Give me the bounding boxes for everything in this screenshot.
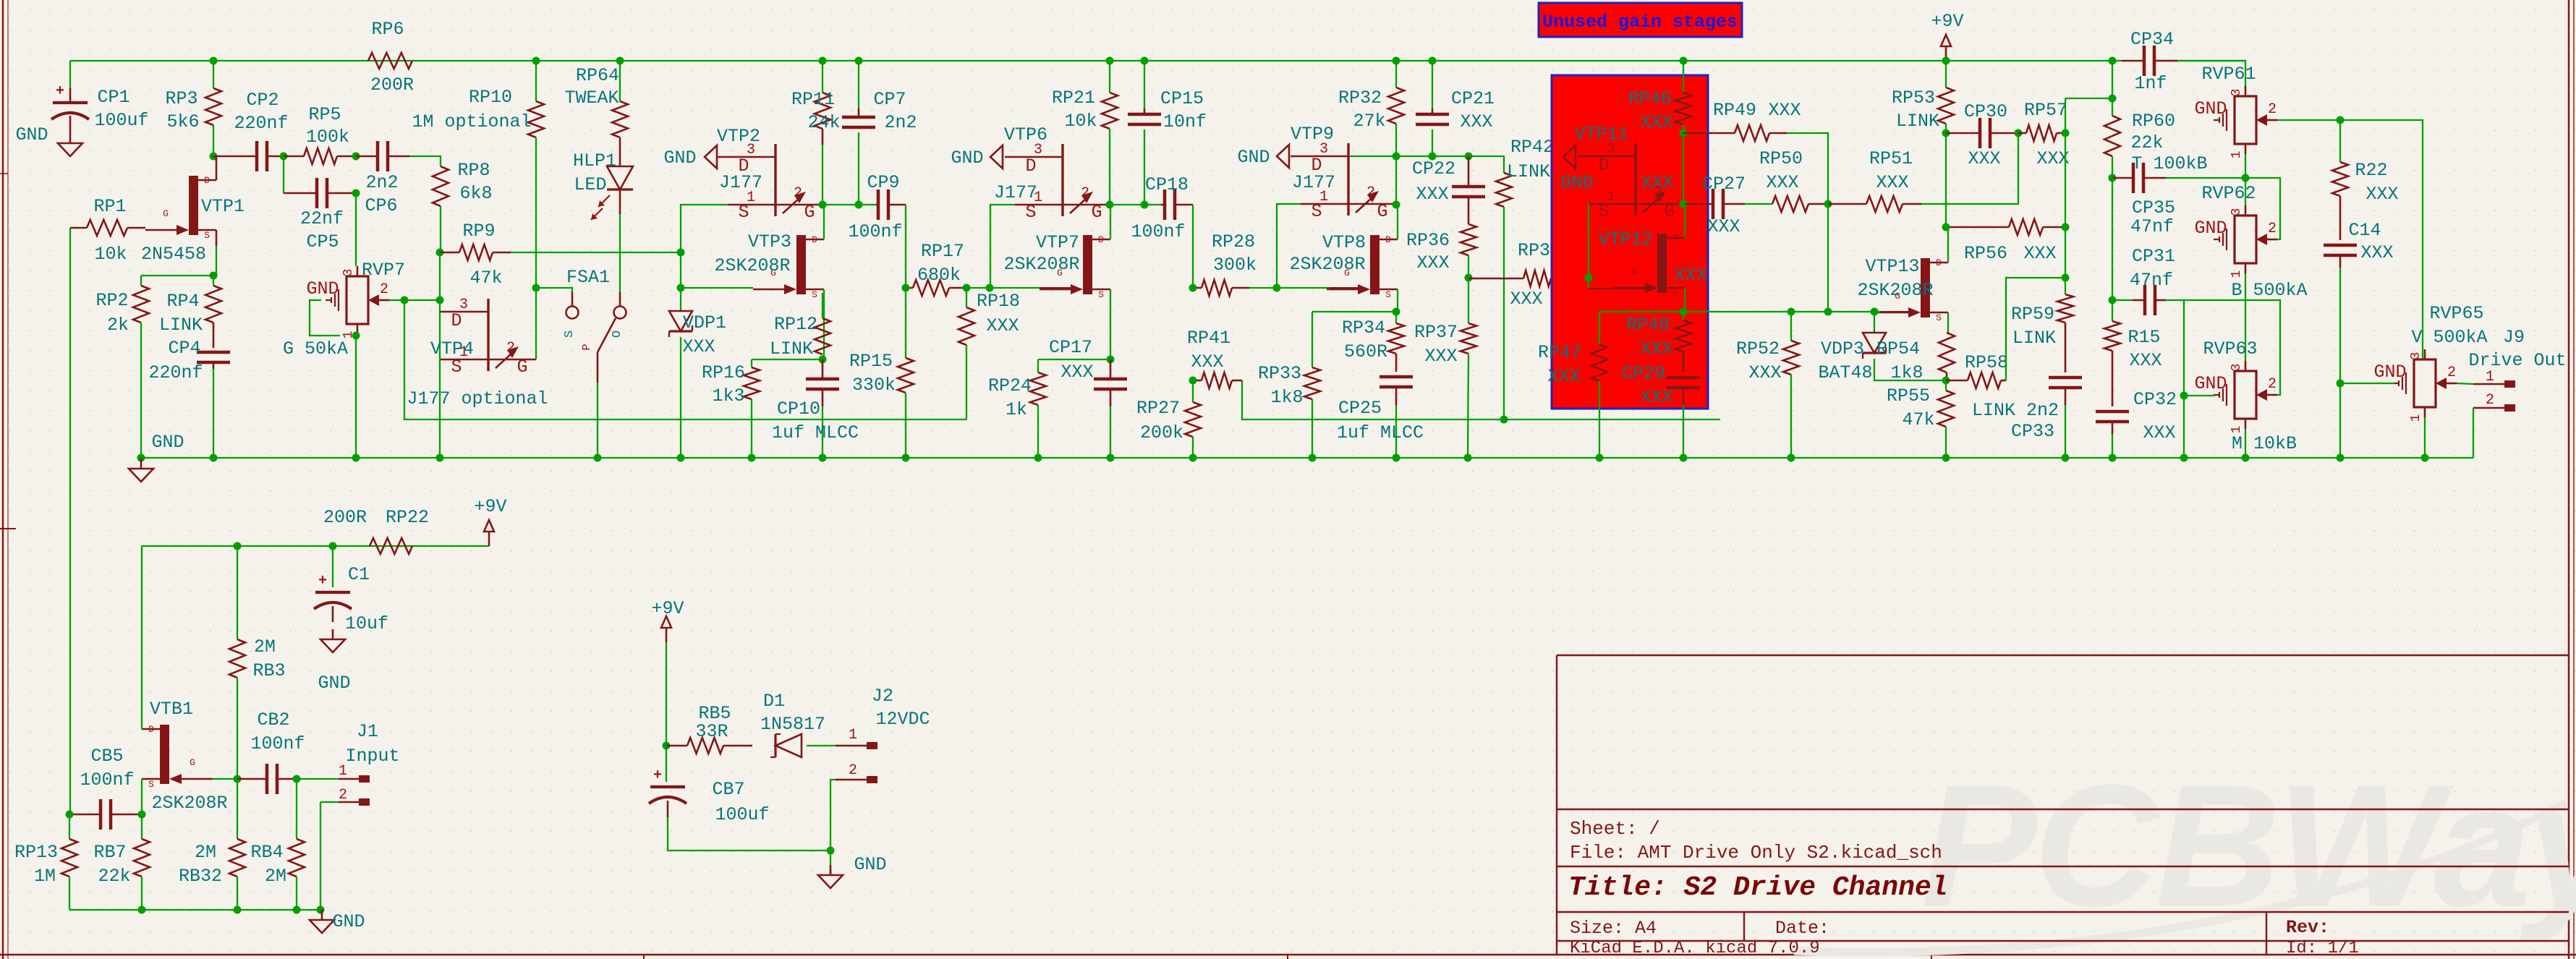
resistor RB32 xyxy=(237,779,238,839)
gnd label VTP6 xyxy=(990,145,1003,169)
svg-text:RP41: RP41 xyxy=(1187,328,1230,349)
junction CB2 right xyxy=(293,775,301,783)
svg-text:24k: 24k xyxy=(807,112,840,133)
svg-text:S: S xyxy=(148,779,154,790)
svg-text:10uf: 10uf xyxy=(345,613,388,634)
svg-text:GND: GND xyxy=(15,124,48,145)
junction RVP7 pin1 xyxy=(352,332,360,340)
svg-text:VTP6: VTP6 xyxy=(1004,124,1047,145)
svg-text:GND: GND xyxy=(332,911,365,932)
wire VTP13 supply column xyxy=(1945,133,1947,227)
junction rail RP21 xyxy=(1106,57,1114,65)
svg-text:1M: 1M xyxy=(34,866,56,887)
svg-text:RP57: RP57 xyxy=(2024,100,2067,121)
svg-text:RVP62: RVP62 xyxy=(2201,183,2256,204)
capacitor CP22 xyxy=(1452,185,1485,189)
junction bus CP17 xyxy=(1107,454,1115,462)
svg-text:RP28: RP28 xyxy=(1212,231,1255,252)
svg-text:RVP61: RVP61 xyxy=(2201,64,2256,85)
junction bus RP27 xyxy=(1189,454,1197,462)
svg-text:1: 1 xyxy=(2486,369,2494,385)
junction bus CP33 xyxy=(2062,454,2070,462)
wire CP35 row right xyxy=(2166,178,2280,239)
svg-text:C14: C14 xyxy=(2348,220,2381,241)
svg-text:CP17: CP17 xyxy=(1049,337,1092,358)
svg-text:XXX: XXX xyxy=(1640,387,1672,408)
svg-text:XXX: XXX xyxy=(2036,148,2069,169)
svg-text:200k: 200k xyxy=(1140,422,1183,443)
junction rail RP10 xyxy=(532,57,540,65)
svg-text:J2: J2 xyxy=(872,686,893,707)
svg-text:2: 2 xyxy=(1081,185,1089,202)
resistor RP2 xyxy=(140,276,142,286)
junction RP52 top xyxy=(1788,308,1795,316)
svg-text:LINK 2n2: LINK 2n2 xyxy=(1972,400,2059,421)
svg-text:RP52: RP52 xyxy=(1736,338,1780,359)
wire VTP2 gate row xyxy=(823,204,876,205)
transistor VTP12 xyxy=(1657,234,1667,293)
junction RP34 top xyxy=(1393,308,1400,316)
junction RP56 right xyxy=(2062,223,2070,231)
svg-text:220nf: 220nf xyxy=(234,113,288,134)
svg-text:RB4: RB4 xyxy=(250,842,283,863)
svg-text:100nf: 100nf xyxy=(250,733,305,754)
svg-text:XXX: XXX xyxy=(1191,351,1223,372)
wire RP32 to gate junction xyxy=(1395,156,1397,205)
svg-text:1k8: 1k8 xyxy=(1270,387,1303,408)
junction J2 gnd xyxy=(827,847,835,855)
svg-text:BAT48: BAT48 xyxy=(1818,362,1872,383)
junction CP22 top xyxy=(1465,153,1473,161)
svg-text:CP22: CP22 xyxy=(1412,158,1455,179)
svg-text:VTP4: VTP4 xyxy=(430,338,474,359)
resistor RP9 xyxy=(440,252,459,254)
sheet border xyxy=(2,0,4,959)
junction VTP1 source xyxy=(210,272,218,280)
power GND at CP1 xyxy=(69,133,72,143)
wire feedback column x608 xyxy=(439,252,441,458)
wire VTP3 gate row xyxy=(681,252,753,288)
svg-text:RP8: RP8 xyxy=(457,160,490,181)
capacitor CP15 xyxy=(1128,113,1161,116)
wire J9 pin2 to bus xyxy=(2473,408,2474,458)
svg-text:CP34: CP34 xyxy=(2130,29,2174,50)
junction rail CP7 xyxy=(855,57,863,65)
junction bus x3019 xyxy=(2180,454,2188,462)
capacitor CP30 xyxy=(1978,118,1982,148)
wire VTP11 S drop xyxy=(1588,204,1589,278)
junction bus RP33 xyxy=(1309,454,1317,462)
svg-text:GND: GND xyxy=(2194,98,2227,119)
svg-text:XXX: XXX xyxy=(1766,172,1798,193)
svg-text:VTP9: VTP9 xyxy=(1291,124,1334,145)
svg-text:100uf: 100uf xyxy=(715,804,769,825)
junction VTP3 gate xyxy=(677,284,685,292)
junction RB5 left xyxy=(663,742,671,750)
svg-text:VTB1: VTB1 xyxy=(150,699,193,720)
potentiometer RVP61 xyxy=(2235,96,2256,144)
svg-text:RP21: RP21 xyxy=(1052,88,1095,108)
svg-text:1k8: 1k8 xyxy=(1890,362,1923,383)
wire J9 pin1 xyxy=(2457,383,2473,384)
svg-text:G 50kA: G 50kA xyxy=(283,338,348,359)
transistor VTP4 xyxy=(487,299,489,371)
svg-text:2: 2 xyxy=(794,185,802,202)
svg-text:Input: Input xyxy=(345,746,399,767)
svg-text:CP18: CP18 xyxy=(1145,174,1189,195)
svg-text:300k: 300k xyxy=(1213,255,1257,276)
power GND at J1 xyxy=(321,910,323,920)
wire VTP7 drain xyxy=(1110,205,1111,239)
svg-text:XXX: XXX xyxy=(1460,111,1492,132)
capacitor CP25 xyxy=(1380,375,1413,379)
svg-text:VTP13: VTP13 xyxy=(1865,256,1919,277)
svg-text:+: + xyxy=(653,767,662,784)
svg-text:2SK208R: 2SK208R xyxy=(151,793,227,814)
capacitor CP4 xyxy=(197,351,230,354)
transistor VTP8 xyxy=(1370,235,1380,294)
svg-text:J9: J9 xyxy=(2503,327,2525,348)
svg-text:CP25: CP25 xyxy=(1338,398,1382,419)
svg-text:22nf: 22nf xyxy=(300,208,344,229)
wire CP31 row xyxy=(2112,299,2133,301)
capacitor CB7 xyxy=(650,785,685,788)
wire VTP13 source xyxy=(1947,312,1949,333)
svg-text:S: S xyxy=(1672,288,1678,299)
svg-text:S: S xyxy=(1098,289,1104,300)
svg-text:J177: J177 xyxy=(1292,172,1335,193)
svg-text:RVP7: RVP7 xyxy=(362,260,405,281)
svg-text:RP58: RP58 xyxy=(1965,352,2008,373)
svg-text:LINK: LINK xyxy=(1507,161,1550,182)
junction VTP11 gate xyxy=(1680,200,1688,208)
svg-text:KiCad E.D.A. kicad 7.0.9: KiCad E.D.A. kicad 7.0.9 xyxy=(1570,939,1820,958)
switch FSA1 xyxy=(566,307,579,319)
svg-text:V 500kA: V 500kA xyxy=(2411,327,2487,348)
svg-text:XXX: XXX xyxy=(1641,172,1673,193)
svg-text:G: G xyxy=(1377,201,1387,222)
junction VTP6 gate xyxy=(1106,201,1114,209)
svg-text:2M: 2M xyxy=(195,842,216,863)
wire VTP12 source row xyxy=(1599,311,1720,312)
svg-text:D: D xyxy=(204,175,210,186)
capacitor CP18 xyxy=(1163,189,1167,220)
svg-text:1: 1 xyxy=(2409,414,2423,422)
junction RP5 right xyxy=(352,153,360,161)
junction rail RP3 xyxy=(210,57,218,65)
wire VTP12 gate xyxy=(1588,278,1589,289)
svg-text:LED: LED xyxy=(574,174,606,195)
svg-text:J177: J177 xyxy=(994,182,1037,203)
svg-text:S: S xyxy=(1936,312,1942,323)
capacitor CP5 xyxy=(315,178,319,208)
svg-text:2: 2 xyxy=(339,787,347,804)
svg-text:RP5: RP5 xyxy=(308,104,341,125)
wire +9V to RB5 row xyxy=(666,642,667,746)
junction rail RP32 xyxy=(1393,57,1400,65)
LED HLP1 xyxy=(607,166,633,189)
wire RP10 to VTP4 gate xyxy=(535,288,537,359)
wire CP6 to RP8 xyxy=(409,156,441,166)
svg-text:VDP1: VDP1 xyxy=(683,312,726,333)
power +9V at RB5 xyxy=(666,628,668,642)
svg-text:RB32: RB32 xyxy=(179,866,222,887)
junction bus RP4 xyxy=(210,454,218,462)
junction CP31 left xyxy=(2109,297,2117,304)
svg-text:10nf: 10nf xyxy=(1163,111,1207,132)
svg-text:2n2: 2n2 xyxy=(884,112,917,133)
svg-text:XXX: XXX xyxy=(2143,422,2175,443)
svg-text:CP27: CP27 xyxy=(1702,174,1746,195)
svg-text:10k: 10k xyxy=(1064,111,1097,132)
svg-text:M 10kB: M 10kB xyxy=(2232,433,2297,454)
capacitor CB5 xyxy=(99,799,103,830)
svg-text:CB7: CB7 xyxy=(712,779,744,800)
junction RP22 row RB3 xyxy=(234,542,242,550)
junction wiper row B xyxy=(436,297,444,304)
wire J1 pin1 xyxy=(297,778,339,780)
wire VDP1 to bus xyxy=(680,337,681,458)
wire left supply drop to CP1 xyxy=(69,61,71,88)
svg-text:200R: 200R xyxy=(323,507,367,528)
potentiometer RVP65 xyxy=(2414,359,2436,407)
wire RVP62 pin1 to RVP63 xyxy=(2245,273,2246,361)
wire VTB1 gate row xyxy=(213,778,237,780)
wire VDP3 to RP54 xyxy=(1874,359,1946,380)
junction ibus RB7 xyxy=(138,906,146,914)
transistor VTB1 mirrored xyxy=(160,725,169,784)
svg-text:1uf MLCC: 1uf MLCC xyxy=(772,422,859,443)
junction CP2-RP5 xyxy=(280,153,288,161)
capacitor CP10 xyxy=(806,378,839,381)
svg-text:S: S xyxy=(1385,289,1391,300)
svg-text:XXX: XXX xyxy=(1060,362,1093,383)
junction bus FSA1 xyxy=(594,454,602,462)
resistor RP27 xyxy=(1192,380,1194,402)
junction R22 top xyxy=(2337,116,2345,124)
wire CB7 to gnd row xyxy=(668,817,830,851)
svg-text:2N5458: 2N5458 xyxy=(141,244,206,265)
svg-text:G: G xyxy=(1631,266,1637,277)
svg-text:2k: 2k xyxy=(107,315,129,336)
wire VTP2 S drop xyxy=(681,205,728,252)
svg-text:RP54: RP54 xyxy=(1876,338,1920,359)
junction CB5 right xyxy=(138,811,146,819)
junction RP54 bottom xyxy=(1942,377,1950,385)
svg-text:CP21: CP21 xyxy=(1451,88,1495,109)
svg-text:XXX: XXX xyxy=(986,315,1019,336)
resistor R22 xyxy=(2339,120,2341,162)
junction bus RP24 xyxy=(1034,454,1042,462)
svg-text:CB5: CB5 xyxy=(90,746,123,767)
svg-text:2: 2 xyxy=(380,281,388,298)
junction VTP6S-RP17 xyxy=(986,284,994,292)
svg-text:Size: A4: Size: A4 xyxy=(1570,918,1657,939)
resistor RP16 xyxy=(751,359,752,367)
resistor RP12 xyxy=(815,318,830,354)
svg-text:GND: GND xyxy=(2194,373,2227,394)
svg-text:G: G xyxy=(163,208,169,219)
gnd label VTP2 xyxy=(705,145,717,169)
junction VTB1 gate xyxy=(234,775,242,783)
junction bus RP15 xyxy=(902,454,910,462)
svg-text:RP17: RP17 xyxy=(921,241,964,262)
capacitor CP17 xyxy=(1094,378,1127,381)
wire CP34 branch xyxy=(2065,98,2112,116)
svg-text:XXX: XXX xyxy=(2365,184,2398,205)
resistor RP10 xyxy=(535,61,537,101)
svg-text:XXX: XXX xyxy=(682,336,715,357)
svg-text:CP30: CP30 xyxy=(1964,101,2007,122)
svg-text:RP3: RP3 xyxy=(165,88,197,109)
junction RP12 bottom xyxy=(819,356,827,364)
resistor RP4 xyxy=(213,276,214,286)
svg-text:XXX: XXX xyxy=(1968,148,2000,169)
wire RP22 row xyxy=(237,545,489,547)
capacitor C1 xyxy=(332,546,333,587)
svg-text:CP35: CP35 xyxy=(2132,197,2175,218)
svg-text:VTP8: VTP8 xyxy=(1322,232,1366,253)
svg-text:XXX: XXX xyxy=(1674,265,1706,286)
svg-text:200R: 200R xyxy=(370,74,414,95)
svg-text:O: O xyxy=(611,331,624,338)
svg-text:GND: GND xyxy=(1560,172,1593,193)
svg-text:2: 2 xyxy=(1366,184,1375,201)
svg-text:J1: J1 xyxy=(357,721,378,742)
wire y580 left wire xyxy=(404,300,966,419)
wire RP16 top row xyxy=(752,359,822,360)
svg-text:47k: 47k xyxy=(1902,409,1934,430)
junction CP2 row xyxy=(210,153,218,161)
junction RP57 right xyxy=(2062,129,2070,137)
label Unused gain stages xyxy=(1539,3,1742,37)
junction CP34 branch xyxy=(2109,95,2117,103)
resistor RP3 xyxy=(213,61,214,88)
wire RP5-CP5 column to RVP7 xyxy=(355,193,357,266)
svg-text:Sheet: /: Sheet: / xyxy=(1570,818,1660,840)
junction bus RP55 xyxy=(1942,454,1950,462)
svg-text:3: 3 xyxy=(341,269,356,277)
svg-text:1N5817: 1N5817 xyxy=(760,714,825,735)
wire VTP7 gate lead xyxy=(1040,287,1071,289)
svg-text:XXX: XXX xyxy=(2360,242,2393,263)
svg-text:330k: 330k xyxy=(852,375,896,396)
wire CP5 drop left xyxy=(283,156,284,193)
svg-text:2SK208R: 2SK208R xyxy=(1003,254,1079,275)
svg-text:S: S xyxy=(563,331,577,338)
svg-text:RP49: RP49 xyxy=(1713,100,1756,121)
svg-text:RP22: RP22 xyxy=(386,507,429,528)
svg-text:1: 1 xyxy=(339,763,347,780)
resistor RP13 xyxy=(69,814,70,839)
junction RP17 left xyxy=(902,284,910,292)
resistor RP21 xyxy=(1109,61,1110,93)
svg-text:CP10: CP10 xyxy=(777,398,820,419)
junction RP22 row C1 xyxy=(329,542,337,550)
svg-text:2SK208R: 2SK208R xyxy=(1857,280,1933,301)
junction ibus RB32 xyxy=(234,906,242,914)
wire CP18 out column xyxy=(1192,205,1194,288)
resistor RP17 xyxy=(913,280,949,296)
wire RP24 row xyxy=(1038,359,1110,360)
svg-text:RP13: RP13 xyxy=(14,842,58,863)
svg-text:CP31: CP31 xyxy=(2132,246,2175,267)
wire RVP65 pin1 to bus xyxy=(2424,417,2426,458)
transistor VTP6 J177 xyxy=(1061,144,1063,216)
svg-text:2: 2 xyxy=(2486,392,2494,409)
junction bus RVP7 xyxy=(352,454,360,462)
svg-text:GND: GND xyxy=(2373,362,2406,383)
wire D1 to J2 xyxy=(807,745,836,746)
resistor RP47 xyxy=(1599,312,1600,344)
junction rail RP11 xyxy=(819,57,827,65)
junction VTP12 source xyxy=(1680,308,1688,316)
resistor RP60 xyxy=(2104,116,2120,156)
svg-text:RB7: RB7 xyxy=(93,842,126,863)
wire VTP1 drain xyxy=(216,156,218,180)
resistor RP64 xyxy=(619,61,621,101)
power +9V at RP22 xyxy=(488,532,490,546)
svg-text:D: D xyxy=(1385,234,1391,245)
junction VTP2 gate xyxy=(819,201,827,209)
svg-text:Date:: Date: xyxy=(1775,918,1829,939)
transistor VTP13 xyxy=(1921,258,1930,317)
junction wiper row A xyxy=(401,297,409,304)
junction RVP63 gnd xyxy=(2180,392,2188,400)
svg-text:CP15: CP15 xyxy=(1160,88,1204,109)
svg-text:CB2: CB2 xyxy=(257,709,289,730)
wire VTP8 source xyxy=(1397,289,1398,312)
junction rail CP21 xyxy=(1429,57,1437,65)
capacitor CP31 xyxy=(2143,285,2147,315)
junction bus RVP65 xyxy=(2421,454,2429,462)
wire ground bus xyxy=(141,457,2473,459)
junction bus RVP63 xyxy=(2242,454,2250,462)
svg-text:XXX: XXX xyxy=(1510,289,1542,310)
resistor RP50 xyxy=(1772,196,1808,212)
svg-text:G: G xyxy=(517,357,527,378)
svg-text:1nf: 1nf xyxy=(2134,73,2167,94)
wire x2855 to CP34 row xyxy=(2065,98,2066,133)
transistor VTP7 xyxy=(1083,235,1092,294)
svg-text:GND: GND xyxy=(854,854,886,875)
svg-text:Title: S2 Drive Channel: Title: S2 Drive Channel xyxy=(1568,872,1948,903)
resistor RP55 xyxy=(1945,380,1947,391)
resistor RP33 xyxy=(1312,312,1313,367)
svg-text:VTP1: VTP1 xyxy=(201,196,245,217)
svg-text:RVP63: RVP63 xyxy=(2203,338,2257,359)
capacitor CP9 xyxy=(877,189,880,220)
wire RVP63 gnd stub xyxy=(2184,395,2215,396)
wire VTP6 gate row xyxy=(1110,204,1161,205)
wire LED to FSA1 xyxy=(619,189,621,214)
svg-text:XXX: XXX xyxy=(1640,338,1672,359)
junction RP28 right xyxy=(1273,284,1281,292)
wire +9V top rail xyxy=(70,60,2122,61)
wire VDP1 column xyxy=(680,288,681,311)
capacitor CP1 xyxy=(53,101,88,104)
junction bus RP16 xyxy=(748,454,756,462)
svg-text:+9V: +9V xyxy=(651,598,684,619)
wire RVP63 pin1 xyxy=(2245,429,2246,458)
wire RVP7 pin1 to bus xyxy=(355,336,357,458)
svg-text:LINK: LINK xyxy=(1896,111,1939,132)
junction VTP9 gate xyxy=(1393,201,1400,209)
svg-text:RP24: RP24 xyxy=(988,375,1032,396)
svg-text:RP18: RP18 xyxy=(977,291,1020,312)
resistor RP41 xyxy=(1202,372,1232,388)
svg-text:R15: R15 xyxy=(2127,327,2160,348)
